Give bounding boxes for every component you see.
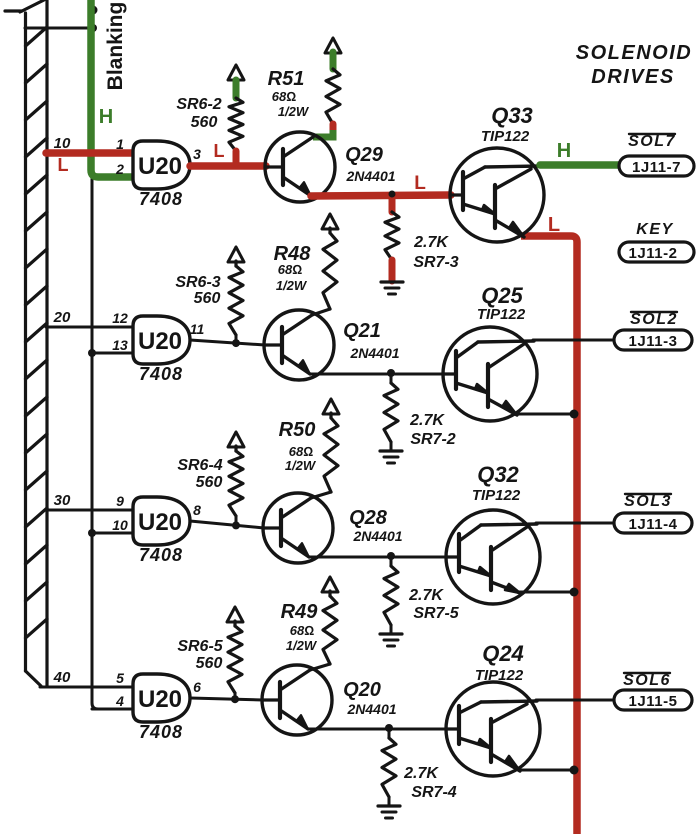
svg-text:SOL7: SOL7	[628, 133, 676, 150]
svg-text:SR7-2: SR7-2	[410, 431, 455, 448]
svg-text:L: L	[58, 155, 69, 175]
svg-text:12: 12	[112, 310, 128, 326]
wire solenoid return bus red	[521, 236, 577, 834]
svg-text:5: 5	[116, 670, 124, 686]
svg-text:SOL2: SOL2	[630, 311, 678, 328]
svg-text:TIP122: TIP122	[481, 128, 530, 145]
wire Q32 emitter to bus	[519, 591, 574, 594]
wire blanking to pin 10	[92, 532, 133, 535]
svg-text:2N4401: 2N4401	[352, 528, 402, 544]
resistor R49 68 ohm	[310, 577, 338, 670]
svg-text:Q21: Q21	[343, 320, 381, 342]
svg-text:1: 1	[116, 136, 124, 152]
label SOL2	[630, 311, 678, 328]
wire Q28 emitter to Q32 base	[309, 556, 447, 559]
transistor Q32 TIP122 darlington	[446, 510, 540, 604]
svg-text:560: 560	[196, 655, 223, 672]
wire blanking to pin 13	[92, 352, 133, 355]
wire Q21 emitter to Q25 base	[310, 373, 444, 376]
svg-text:10: 10	[112, 517, 128, 533]
svg-text:30: 30	[54, 492, 71, 509]
svg-text:TIP122: TIP122	[472, 487, 521, 504]
ground SR7-3	[381, 282, 403, 294]
svg-text:2: 2	[115, 161, 124, 177]
svg-text:SR6-4: SR6-4	[177, 457, 222, 474]
svg-text:U20: U20	[138, 328, 182, 355]
svg-text:1/2W: 1/2W	[276, 278, 308, 293]
svg-text:2.7K: 2.7K	[403, 765, 439, 782]
wire Q32 collector to SOL3	[536, 522, 614, 525]
ground SR7-2	[380, 451, 402, 463]
svg-text:560: 560	[194, 290, 221, 307]
transistor Q21 2N4401	[264, 310, 334, 380]
resistor SR6-3 560	[228, 247, 244, 342]
svg-text:68Ω: 68Ω	[290, 623, 314, 638]
svg-text:2N4401: 2N4401	[346, 701, 396, 717]
svg-text:SR7-3: SR7-3	[413, 254, 458, 271]
svg-text:1/2W: 1/2W	[286, 638, 318, 653]
svg-text:L: L	[548, 214, 560, 236]
wire blanking highlighted green	[91, 0, 133, 177]
transistor Q24 TIP122 darlington	[446, 682, 540, 776]
svg-text:7408: 7408	[139, 545, 183, 565]
svg-text:Q32: Q32	[477, 462, 519, 487]
svg-text:L: L	[414, 173, 426, 194]
svg-text:9: 9	[116, 493, 124, 509]
junction SR6-5 to wire	[231, 695, 239, 703]
svg-text:SOL3: SOL3	[624, 493, 672, 510]
resistor SR7-5 2.7K	[384, 556, 398, 634]
resistor R50 68 ohm	[311, 399, 339, 498]
svg-text:2N4401: 2N4401	[345, 168, 395, 184]
junction SR7-3 red stub	[389, 196, 396, 212]
svg-text:R51: R51	[268, 68, 305, 90]
wire Q24 collector to SOL6	[536, 699, 614, 702]
resistor R48 68 ohm	[312, 214, 338, 315]
svg-text:2.7K: 2.7K	[413, 234, 449, 251]
resistor R51 68 ohm	[313, 38, 341, 137]
AND gate U20 row 4 (7408)	[133, 674, 190, 722]
svg-text:SOLENOID: SOLENOID	[576, 42, 692, 64]
svg-text:1J11-2: 1J11-2	[629, 245, 678, 262]
transistor Q29 2N4401	[265, 132, 335, 202]
svg-text:560: 560	[196, 474, 223, 491]
svg-text:20: 20	[53, 309, 71, 326]
wire blanking bus vertical	[92, 0, 133, 709]
transistor Q25 TIP122 darlington	[443, 327, 537, 421]
wire Q24 emitter to bus	[519, 769, 574, 772]
svg-text:SR7-5: SR7-5	[413, 605, 459, 622]
svg-text:SR7-4: SR7-4	[411, 784, 456, 801]
resistor SR7-4 2.7K	[382, 728, 396, 806]
svg-text:7408: 7408	[139, 189, 183, 209]
svg-text:1J11-7: 1J11-7	[632, 159, 681, 176]
resistor SR6-2 560	[228, 65, 244, 163]
svg-text:Q25: Q25	[481, 283, 523, 308]
svg-text:7408: 7408	[139, 364, 183, 384]
svg-text:U20: U20	[138, 686, 182, 713]
svg-text:R49: R49	[281, 601, 319, 623]
svg-text:560: 560	[191, 114, 218, 131]
svg-text:6: 6	[193, 679, 201, 695]
wire input 40 row 4	[40, 686, 133, 689]
svg-text:1/2W: 1/2W	[278, 104, 310, 119]
svg-text:Blanking: Blanking	[104, 2, 127, 91]
svg-text:Q33: Q33	[491, 103, 533, 128]
svg-text:H: H	[99, 106, 113, 128]
svg-text:SR6-3: SR6-3	[175, 274, 220, 291]
svg-text:68Ω: 68Ω	[272, 89, 296, 104]
AND gate U20 row 2 (7408)	[133, 316, 190, 364]
svg-text:DRIVES: DRIVES	[591, 66, 674, 88]
svg-text:U20: U20	[138, 153, 182, 180]
svg-text:SR6-5: SR6-5	[177, 638, 223, 655]
svg-text:SOL6: SOL6	[623, 672, 671, 689]
svg-text:8: 8	[193, 502, 201, 518]
AND gate U20 row 1 (7408)	[133, 141, 190, 189]
svg-text:11: 11	[190, 321, 205, 337]
connector SOL3 1J11-4	[614, 513, 692, 533]
svg-text:KEY: KEY	[636, 221, 673, 238]
junction SR6-4 to wire	[232, 521, 240, 529]
resistor SR6-4 560	[228, 432, 244, 523]
wire tap at top	[25, 27, 92, 30]
label SOL7	[628, 133, 676, 150]
wire Q25 emitter to bus	[516, 413, 574, 416]
wire Q20 emitter to Q24 base	[308, 728, 447, 731]
svg-text:Q29: Q29	[345, 144, 384, 166]
svg-text:L: L	[214, 141, 225, 161]
svg-text:SR6-2: SR6-2	[176, 96, 221, 113]
connector SOL6 1J11-5	[614, 690, 692, 710]
AND gate U20 row 3 (7408)	[133, 497, 190, 545]
connector KEY 1J11-2	[619, 242, 694, 262]
svg-text:TIP122: TIP122	[477, 306, 526, 323]
transistor Q20 2N4401	[262, 665, 332, 735]
ground SR7-4	[378, 806, 400, 818]
svg-text:Q20: Q20	[343, 679, 381, 701]
svg-text:4: 4	[115, 693, 124, 709]
wire input 20 row 2	[46, 326, 133, 329]
svg-text:40: 40	[53, 669, 71, 686]
svg-text:1J11-3: 1J11-3	[629, 333, 678, 350]
transistor Q33 TIP122 darlington	[450, 148, 544, 242]
svg-text:68Ω: 68Ω	[278, 262, 302, 277]
connector edge hatched bar	[5, 0, 47, 686]
connector SOL2 1J11-3	[614, 330, 692, 350]
svg-text:2.7K: 2.7K	[408, 587, 444, 604]
svg-text:10: 10	[54, 135, 71, 152]
svg-text:68Ω: 68Ω	[289, 444, 313, 459]
transistor Q28 2N4401	[263, 493, 333, 563]
wire input 30 row 3	[46, 509, 133, 512]
svg-text:7408: 7408	[139, 722, 183, 742]
junction SR6-3 to wire	[232, 339, 240, 347]
wire blanking to pin 4	[92, 708, 133, 711]
resistor SR6-5 560	[227, 607, 243, 700]
svg-text:Q28: Q28	[349, 507, 388, 529]
title SOLENOID DRIVES	[576, 42, 692, 88]
wire input 10 row 1	[46, 149, 133, 157]
svg-text:2.7K: 2.7K	[409, 412, 445, 429]
wire Q33 collector to SOL7	[540, 161, 619, 169]
svg-text:Q24: Q24	[482, 641, 524, 666]
svg-text:2N4401: 2N4401	[349, 345, 399, 361]
connector SOL7 1J11-7	[619, 156, 694, 176]
wire Q25 collector to SOL2	[533, 339, 614, 342]
svg-text:TIP122: TIP122	[475, 667, 524, 684]
svg-text:3: 3	[193, 146, 201, 162]
svg-text:R50: R50	[279, 419, 316, 441]
resistor SR7-2 2.7K	[384, 373, 398, 451]
label SOL6	[623, 672, 671, 689]
wire U20 out to Q29 base	[190, 162, 266, 170]
svg-text:1J11-5: 1J11-5	[629, 693, 678, 710]
wire U20 out to Q28 base	[190, 521, 264, 528]
wire U20 out to Q20 base	[190, 698, 263, 700]
svg-text:H: H	[557, 140, 571, 162]
wire Q29 emitter to Q33 base	[311, 195, 451, 196]
ground SR7-5	[380, 634, 402, 646]
resistor SR7-3 2.7K	[385, 212, 399, 281]
svg-text:1/2W: 1/2W	[285, 458, 317, 473]
label SOL3	[624, 493, 672, 510]
svg-text:U20: U20	[138, 509, 182, 536]
svg-text:13: 13	[112, 337, 128, 353]
wire U20 out to Q21 base	[190, 340, 265, 345]
svg-text:1J11-4: 1J11-4	[629, 516, 678, 533]
